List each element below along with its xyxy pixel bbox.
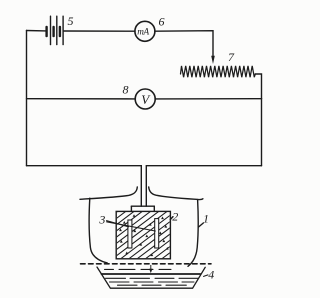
- wire bottom right segment: [146, 166, 261, 207]
- label 8: [123, 83, 129, 97]
- collecting dish 4 outline: [97, 267, 205, 288]
- milliammeter mA 6: [135, 21, 155, 41]
- electrolyte block 2 crystal marks: [119, 214, 169, 256]
- wire bottom left segment: [27, 166, 142, 207]
- voltmeter V 8: [135, 89, 155, 109]
- label 6: [159, 14, 165, 28]
- electrode holder stopper: [131, 206, 154, 211]
- vessel 1 left wall: [89, 198, 107, 263]
- rheostat 7 zigzag: [181, 66, 256, 77]
- svg-text:5: 5: [68, 14, 74, 28]
- wire top from left vertical to battery: [27, 30, 47, 32]
- wire middle left to voltmeter: [27, 98, 136, 100]
- label 5: [68, 14, 74, 28]
- label 7: [228, 50, 235, 64]
- label 3 with leaders: [98, 212, 155, 231]
- wire right vertical: [261, 99, 263, 166]
- svg-text:V: V: [141, 92, 151, 107]
- svg-text:mA: mA: [137, 27, 149, 37]
- electrolyte block 2 outline: [116, 211, 170, 258]
- vessel 1 left rim: [80, 187, 137, 199]
- rheostat wiper arrow: [211, 56, 215, 64]
- svg-text:2: 2: [172, 209, 178, 223]
- electrode right 3: [155, 219, 159, 248]
- drop arrow into dish: [149, 265, 152, 273]
- dish liquid shading dashes: [105, 269, 199, 285]
- svg-text:6: 6: [159, 14, 165, 28]
- wire voltmeter to right vertical: [155, 98, 261, 100]
- battery 5: [47, 16, 64, 44]
- vessel 1 right rim: [149, 187, 203, 200]
- label 4 with leader: [204, 267, 215, 281]
- svg-text:1: 1: [203, 212, 209, 226]
- wire milliammeter to rheostat wiper corner: [155, 31, 213, 57]
- electrode left 3: [128, 220, 132, 248]
- wire rheostat right end to right vertical: [255, 74, 261, 99]
- svg-text:4: 4: [208, 267, 214, 281]
- dish liquid surface: [102, 273, 201, 275]
- svg-text:8: 8: [123, 83, 129, 97]
- wire left vertical: [26, 31, 28, 166]
- wire battery to milliammeter: [64, 30, 135, 32]
- dashed line vessel bottom opening: [81, 263, 212, 265]
- electrolyte block 2 hatching: [52, 209, 236, 260]
- label 2 with leader: [170, 209, 178, 223]
- svg-text:7: 7: [228, 50, 235, 64]
- vessel 1 right wall: [188, 200, 198, 267]
- label 1 with leader: [199, 212, 209, 227]
- svg-text:3: 3: [98, 212, 105, 226]
